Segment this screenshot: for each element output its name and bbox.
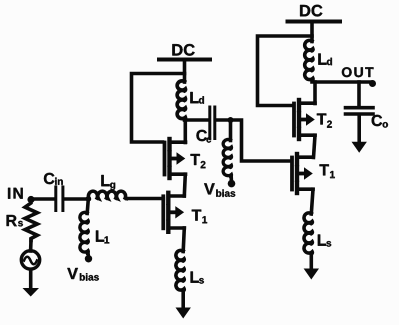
label T2 stage2 (317, 113, 332, 127)
wire DC bar to Ld1 (183, 60, 187, 83)
ground stage2 Ls (304, 254, 319, 280)
ground Co (352, 116, 367, 153)
label DC stage1 (172, 44, 194, 56)
label Cc (196, 130, 211, 143)
wire T2 drain up stage2 (313, 82, 317, 104)
label T1 stage1 (192, 210, 207, 224)
DC supply bar stage1 (159, 58, 210, 62)
wire OUT node to Co (357, 82, 361, 105)
node junction after Cc (228, 117, 234, 123)
wire Cc to stage2 gate network (217, 120, 291, 161)
label Ls stage2 (318, 234, 331, 246)
wire T1 source down stage2 (311, 189, 313, 214)
label Rs (7, 215, 23, 226)
transistor T2 stage1 (165, 139, 186, 178)
label Vbias stage2 (204, 183, 235, 196)
node Vbias terminal stage1 (85, 255, 92, 262)
wire DC bar to Ld2 (310, 22, 314, 42)
wire T2 source to T1 drain (184, 174, 185, 196)
wire bias inductor to Vbias terminal (229, 177, 233, 182)
label Ld stage1 (190, 92, 204, 104)
node OUT terminal (369, 80, 376, 87)
wire T2 source to T1 drain stage2 (314, 135, 316, 157)
label Vbias stage1 (67, 268, 98, 281)
wire drain node to Cc (185, 118, 210, 122)
wire junction to L1 (87, 199, 88, 214)
wire Lg to T1 gate (127, 197, 164, 201)
inductor L1 (80, 212, 88, 253)
inductor Ls stage2 (304, 213, 312, 254)
wire T1 source down (183, 228, 184, 252)
label T2 stage1 (190, 154, 205, 168)
label L1 (96, 230, 109, 243)
label Ld stage2 (318, 53, 332, 65)
label T1 stage2 (319, 164, 334, 178)
capacitor Cin (56, 187, 63, 211)
capacitor Cc (210, 107, 215, 139)
inductor Ld stage1 (177, 81, 185, 120)
ground stage1 Ls (176, 291, 191, 319)
label Co (372, 115, 388, 128)
wire junction to bias inductor (229, 120, 233, 141)
wire drain node to OUT (312, 80, 371, 84)
transistor T1 stage2 (292, 154, 313, 193)
node Vbias terminal stage2 (228, 180, 236, 188)
wire Cin to junction (65, 197, 90, 201)
resistor Rs (25, 202, 37, 241)
wire T2 drain up (184, 120, 188, 143)
wire L1 to Vbias terminal (86, 253, 90, 256)
wire feedback loop stage1 (gate of T2 to DC) (132, 74, 185, 143)
inductor Ld stage2 (305, 40, 313, 80)
node junction Cin/Lg/L1 (86, 196, 92, 202)
wire Rs to source (29, 240, 33, 251)
transistor T1 stage1 (163, 193, 184, 232)
node IN (27, 196, 34, 203)
capacitor Co (346, 108, 374, 114)
label Ls stage1 (191, 271, 204, 283)
ground source (23, 269, 40, 296)
transistor T2 stage2 (294, 100, 315, 139)
label IN (8, 188, 23, 199)
source generator circle (21, 251, 39, 269)
label Lg (101, 175, 115, 190)
label DC stage2 (300, 5, 322, 17)
label Cin (44, 173, 63, 185)
label OUT (342, 67, 374, 77)
inductor Lg (88, 191, 126, 199)
inductor Ls stage1 (176, 250, 184, 291)
wire feedback loop stage2 (gate of T2 to DC) (258, 36, 313, 106)
DC supply bar stage2 (288, 20, 341, 24)
wire IN to Cin (31, 197, 54, 201)
inductor stage2 gate bias (223, 139, 231, 176)
